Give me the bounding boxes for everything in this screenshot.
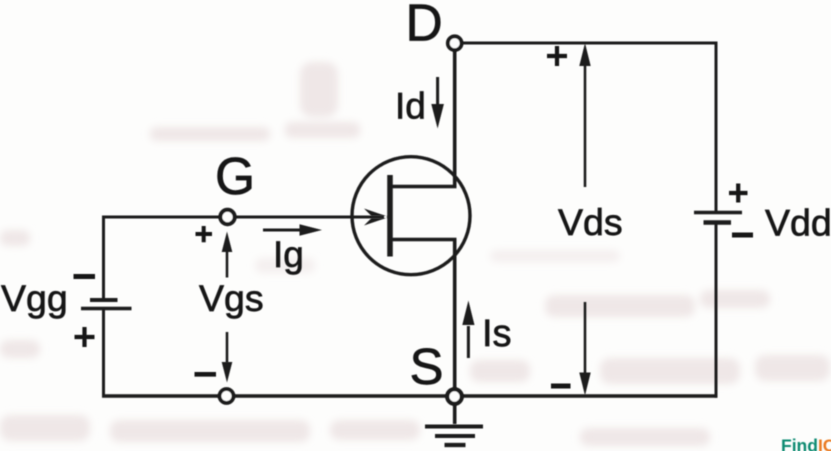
svg-text:Vgg: Vgg — [1, 277, 68, 319]
svg-text:Vdd: Vdd — [765, 202, 831, 244]
svg-text:S: S — [410, 338, 444, 395]
svg-text:Ig: Ig — [273, 234, 304, 275]
svg-text:G: G — [215, 147, 255, 205]
svg-text:Vgs: Vgs — [199, 277, 264, 319]
svg-text:FindIC: FindIC — [781, 436, 831, 451]
svg-text:Is: Is — [482, 313, 512, 355]
svg-text:D: D — [406, 0, 443, 52]
svg-text:Id: Id — [395, 86, 426, 127]
svg-text:Vds: Vds — [558, 201, 623, 243]
